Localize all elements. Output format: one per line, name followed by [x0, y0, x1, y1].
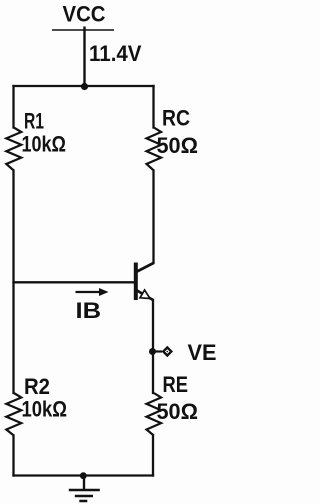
- svg-text:RE: RE: [163, 372, 189, 397]
- svg-text:50Ω: 50Ω: [157, 399, 199, 424]
- svg-text:11.4V: 11.4V: [89, 41, 142, 66]
- svg-text:VE: VE: [188, 340, 217, 365]
- svg-text:VCC: VCC: [63, 1, 106, 26]
- svg-text:RC: RC: [162, 105, 190, 130]
- svg-text:IB: IB: [76, 298, 102, 323]
- svg-text:R1: R1: [24, 108, 44, 133]
- svg-text:10kΩ: 10kΩ: [22, 397, 68, 422]
- svg-text:10kΩ: 10kΩ: [22, 132, 67, 157]
- svg-text:50Ω: 50Ω: [157, 133, 199, 158]
- svg-text:R2: R2: [24, 374, 50, 399]
